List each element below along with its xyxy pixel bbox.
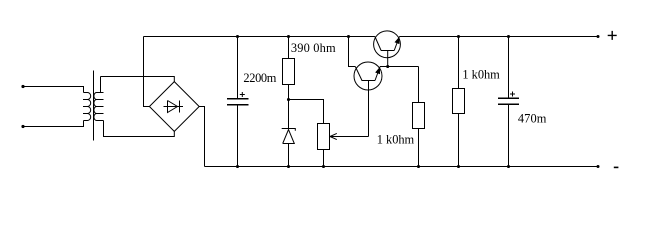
- wire Q2 emitter to R2: [380, 66, 419, 68]
- transformer T1 primary terminal bottom: [21, 125, 24, 128]
- resistor R1 390 Ohm: [288, 37, 290, 59]
- node bottom rail / R3: [457, 165, 460, 168]
- wire primary bottom lead: [23, 121, 84, 127]
- wire top rail drop to bridge left corner: [144, 37, 150, 107]
- wire junction to potentiometer P1: [289, 100, 324, 124]
- potentiometer P1 wiper arrow: [330, 133, 369, 139]
- node top rail / C1: [236, 35, 239, 38]
- transformer T1 primary terminal top: [21, 85, 24, 88]
- svg-text:2200m: 2200m: [243, 71, 276, 85]
- capacitor C1 2200m: [237, 37, 239, 167]
- resistor R3 1 k0hm: [458, 37, 460, 89]
- node R1 / D1 / P1 junction: [287, 98, 290, 101]
- wire top rail (left of Q1): [144, 36, 375, 38]
- svg-text:1 k0hm: 1 k0hm: [377, 133, 415, 147]
- potentiometer P1 body: [318, 124, 330, 150]
- node top rail / Q2 collector branch: [347, 35, 350, 38]
- output minus sign: [614, 166, 619, 168]
- wire top rail (right of Q1): [399, 36, 598, 38]
- svg-text:390 0hm: 390 0hm: [291, 41, 336, 55]
- node bottom rail / D1: [287, 165, 290, 168]
- transistor Q2: [354, 62, 382, 90]
- transformer T1 core: [93, 71, 95, 141]
- transformer T1 secondary winding: [94, 77, 104, 121]
- node bottom rail / C1: [236, 165, 239, 168]
- diode symbol inside bridge: [164, 101, 184, 113]
- node Q1 base / Q2 emitter: [386, 65, 389, 68]
- svg-text:1 k0hm: 1 k0hm: [462, 67, 500, 81]
- transistor Q1: [374, 31, 401, 58]
- wire secondary bottom to bridge bottom corner: [104, 121, 175, 137]
- C2 polarity plus: [510, 92, 515, 97]
- wire Q2 base to wiper: [368, 81, 370, 137]
- output plus sign: [608, 31, 617, 40]
- bridge rectifier B1 diamond: [149, 82, 199, 132]
- node bottom rail / P1: [322, 165, 325, 168]
- node top rail / R1: [287, 35, 290, 38]
- output terminal minus node: [597, 165, 600, 168]
- node bottom rail / R2: [417, 165, 420, 168]
- wire top rail down to Q2 collector: [349, 37, 356, 67]
- wire Q1 base lead: [387, 51, 389, 67]
- wire primary top lead: [23, 87, 84, 93]
- output terminal plus node: [597, 35, 600, 38]
- node top rail / C2: [507, 35, 510, 38]
- Q1 emitter arrowhead: [395, 37, 400, 44]
- transformer T1 primary winding: [83, 93, 91, 121]
- Q2 emitter arrowhead: [375, 67, 380, 74]
- wire secondary top to bridge top corner: [101, 77, 175, 82]
- wire bridge right corner to bottom rail: [199, 107, 204, 167]
- svg-text:470m: 470m: [518, 112, 547, 126]
- zener diode D1: [282, 129, 296, 167]
- C1 polarity plus: [240, 92, 245, 97]
- node top rail / R3: [457, 35, 460, 38]
- wire bottom rail: [205, 166, 599, 168]
- capacitor C2 470m: [508, 37, 510, 167]
- node bottom rail / C2: [507, 165, 510, 168]
- resistor R2 1 k0hm: [418, 67, 420, 103]
